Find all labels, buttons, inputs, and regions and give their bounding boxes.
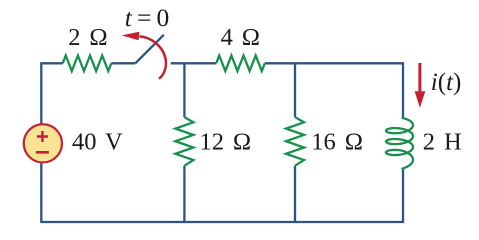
svg-text:2 Ω: 2 Ω xyxy=(68,24,107,51)
svg-text:16 Ω: 16 Ω xyxy=(311,129,363,156)
svg-text:i(t): i(t) xyxy=(431,69,462,96)
svg-text:12 Ω: 12 Ω xyxy=(200,129,252,156)
svg-text:t = 0: t = 0 xyxy=(125,3,169,32)
svg-text:4 Ω: 4 Ω xyxy=(221,24,260,51)
svg-text:40 V: 40 V xyxy=(72,129,123,156)
svg-text:2 H: 2 H xyxy=(423,128,462,155)
